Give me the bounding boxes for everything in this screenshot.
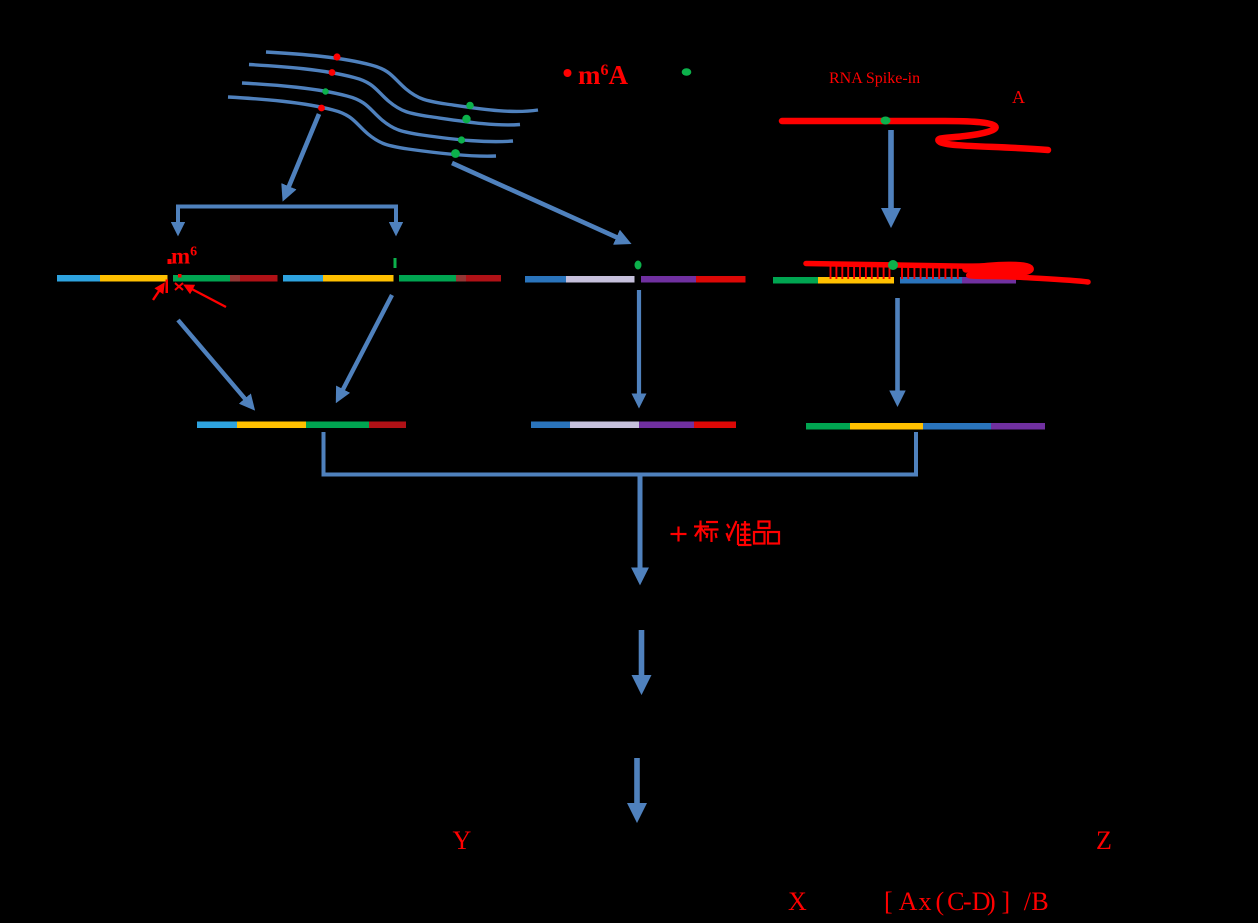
- bar2 red segment: [696, 276, 746, 283]
- bar2 purple segment: [641, 276, 696, 283]
- mRNA strand 4: [228, 97, 496, 156]
- red asterisk: [175, 283, 183, 290]
- strand 3 right green dot: [458, 136, 465, 143]
- bar2 lavender segment: [566, 276, 635, 283]
- spike-in down arrow: [888, 130, 894, 222]
- svg-text:Y: Y: [453, 826, 472, 855]
- pooled center arrow: [638, 476, 643, 580]
- bar3 purple segment: [962, 277, 1016, 284]
- RNA spike-in line: [782, 121, 1048, 150]
- bar1b yellow segment: [323, 275, 394, 282]
- bar1a blue segment: [57, 275, 100, 282]
- svg-text:X: X: [788, 887, 807, 916]
- bar1b green tick above cut: [394, 258, 397, 268]
- red arrow from lower-left to cut: [153, 285, 163, 300]
- short bar L red: [369, 422, 406, 429]
- mRNA strand 1: [228, 52, 538, 156]
- svg-text:RNA Spike-in: RNA Spike-in: [829, 70, 920, 87]
- strand 2 m6A red dot: [329, 69, 336, 76]
- bar1a yellow segment: [100, 275, 168, 282]
- svg-text:[Ax(C-D)]/B: [Ax(C-D)]/B: [884, 887, 1049, 916]
- short bar M purple: [639, 422, 694, 429]
- red tick on green start: [178, 274, 182, 278]
- bar1b darkred segment: [456, 275, 466, 282]
- mRNA strand 2: [249, 65, 520, 125]
- short bar M blue: [531, 422, 570, 429]
- base-pairing ticks right: [902, 267, 958, 280]
- left distribution bracket: [178, 207, 396, 231]
- plus sign: [671, 533, 687, 535]
- char pin (three squares): [754, 522, 779, 544]
- extra loop stroke of spike-in tail: [966, 265, 1030, 274]
- bar2 green tick above cut: [635, 261, 642, 270]
- strand 2 green dot: [462, 115, 470, 123]
- long red arrow to cut: [186, 286, 226, 307]
- m6 cut label dot: [168, 259, 172, 264]
- spike-in green dot: [881, 117, 891, 125]
- bar3 green segment: [773, 277, 818, 284]
- bar1b blue segment: [283, 275, 323, 282]
- char biao (standard): [694, 521, 719, 543]
- spike-in hybridized red line: [806, 264, 1088, 283]
- char zhun: [727, 521, 752, 545]
- bar1a red segment: [240, 275, 278, 282]
- pooling bracket: [324, 432, 917, 475]
- strand 1 green dot: [466, 102, 474, 110]
- col1 arrow left: [178, 320, 252, 407]
- bar1a darkred segment: [230, 275, 240, 282]
- col1 arrow right: [338, 295, 392, 399]
- sequencing arrow: [639, 630, 645, 689]
- bracket left arrowhead: [176, 226, 180, 232]
- short bar M red: [694, 422, 736, 429]
- strand 3 green dot: [322, 88, 328, 94]
- svg-text:A: A: [1012, 87, 1025, 107]
- strand 1 m6A red dot: [333, 53, 340, 60]
- base-pairing ticks left: [831, 267, 890, 280]
- bracket right arrowhead: [394, 226, 398, 232]
- col3 vertical arrow: [895, 298, 900, 402]
- bar3 blue segment: [900, 277, 962, 284]
- spike-in duplex green dot: [888, 260, 898, 270]
- short bar M lavender: [570, 422, 639, 429]
- bar1b red segment: [466, 275, 501, 282]
- bar2 blue segment: [525, 276, 566, 283]
- short bar R green: [806, 423, 850, 430]
- strand 4 m6A red dot: [318, 105, 325, 112]
- svg-text:Z: Z: [1096, 826, 1112, 855]
- short bar R purple: [991, 423, 1045, 430]
- + standard (biaozhunpin) label: [671, 521, 780, 546]
- strand 4 green dot: [451, 149, 460, 158]
- red tick below cut: [166, 280, 169, 294]
- short bar L yellow: [237, 422, 306, 429]
- analysis arrow: [634, 758, 640, 817]
- mRNA strand 3: [242, 83, 513, 142]
- short bar R blue: [923, 423, 991, 430]
- bar1b green segment: [399, 275, 456, 282]
- col2 vertical arrow: [637, 290, 641, 404]
- bar1a green segment: [173, 275, 230, 282]
- arrow strands to middle bar: [452, 163, 627, 242]
- legend red dot: [564, 69, 572, 77]
- short bar L green: [306, 422, 369, 429]
- arrow strands to left bracket: [285, 114, 320, 197]
- bar3 yellow segment: [818, 277, 894, 284]
- short bar L blue: [197, 422, 237, 429]
- legend green dot: [682, 68, 692, 76]
- short bar R yellow: [850, 423, 923, 430]
